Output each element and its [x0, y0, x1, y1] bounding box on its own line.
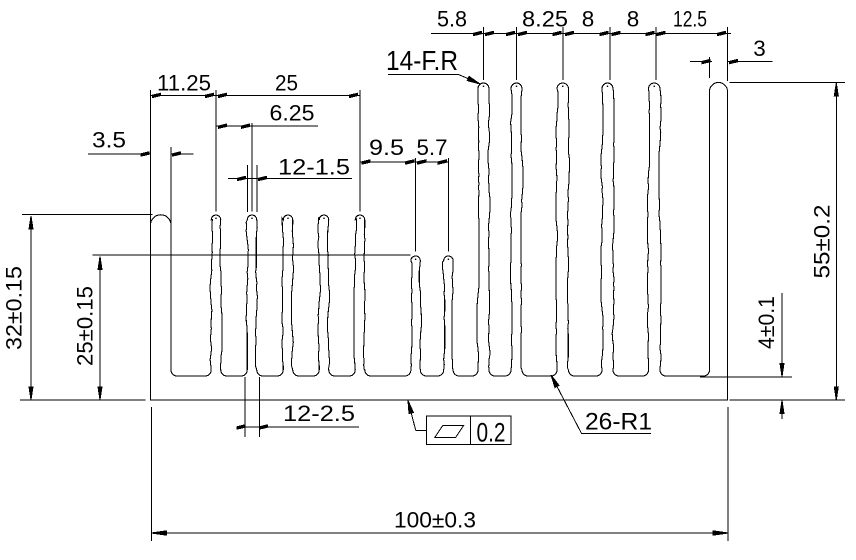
svg-text:32±0.15: 32±0.15 [2, 266, 27, 350]
svg-text:11.25: 11.25 [157, 71, 211, 96]
svg-text:0.2: 0.2 [477, 418, 506, 448]
svg-text:26-R1: 26-R1 [585, 409, 652, 436]
svg-text:12-2.5: 12-2.5 [283, 401, 355, 426]
svg-text:12.5: 12.5 [673, 7, 707, 32]
svg-text:9.5: 9.5 [369, 135, 404, 160]
svg-text:8: 8 [582, 7, 595, 32]
svg-text:8.25: 8.25 [522, 7, 568, 32]
svg-text:5.7: 5.7 [417, 135, 448, 160]
svg-text:14-F.R: 14-F.R [386, 45, 458, 76]
svg-text:3: 3 [753, 36, 766, 61]
svg-text:5.8: 5.8 [437, 7, 467, 32]
svg-text:4±0.1: 4±0.1 [754, 296, 779, 349]
svg-text:12-1.5: 12-1.5 [278, 155, 350, 180]
svg-text:55±0.2: 55±0.2 [810, 205, 835, 279]
svg-text:6.25: 6.25 [270, 101, 315, 126]
svg-text:8: 8 [627, 7, 640, 32]
svg-text:25: 25 [275, 71, 298, 96]
svg-text:3.5: 3.5 [92, 128, 126, 153]
svg-text:25±0.15: 25±0.15 [73, 286, 98, 366]
svg-text:100±0.3: 100±0.3 [394, 508, 476, 533]
